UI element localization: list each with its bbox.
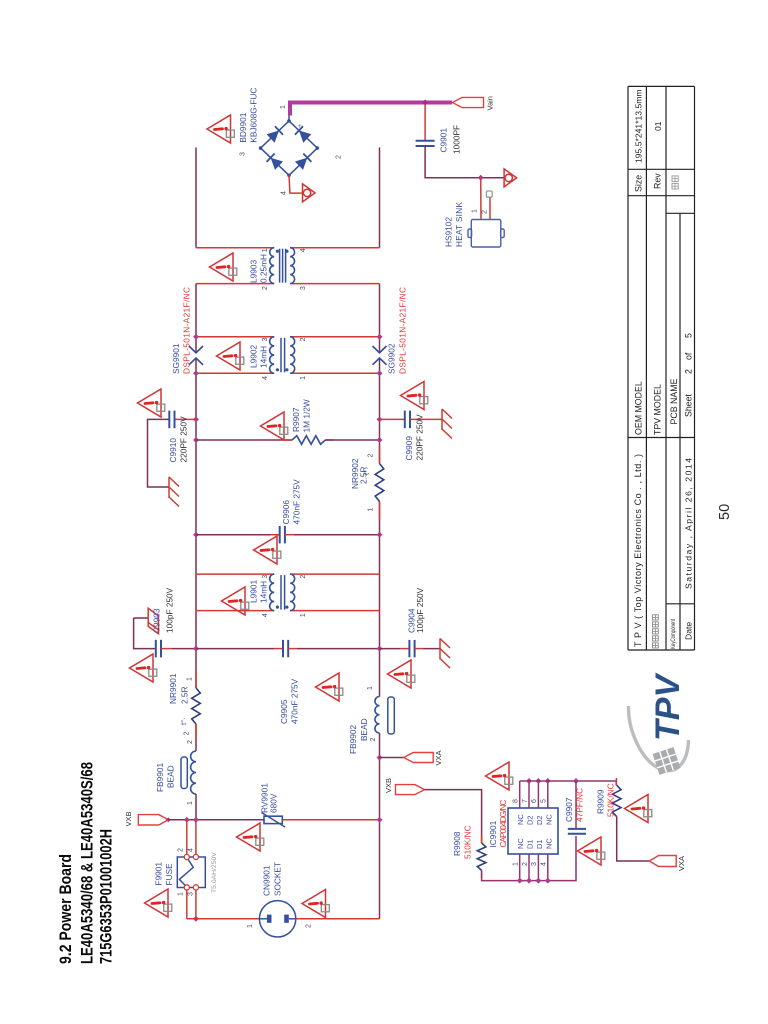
svg-text:IC9901: IC9901 [488,820,498,847]
connector VXB at IC9901 [396,785,425,795]
wire L9903 left tap to bottom rail [290,283,379,285]
ground chassis symbol at C9910 [169,477,179,507]
junction C9909 on bottom rail [377,416,383,422]
wire R9909 to VXA [617,817,650,861]
svg-text:2: 2 [306,924,313,928]
diode of BD9901 (AC3 to + upper-left) [267,154,283,170]
svg-text:1: 1 [280,105,287,109]
wire socket column upper [187,918,260,920]
wire L9903 right tap to top rail [196,247,274,249]
svg-text:195.5*241*13.5mm: 195.5*241*13.5mm [634,89,644,163]
svg-text:1: 1 [513,862,520,866]
warning triangle near F9901 [145,889,172,917]
svg-text:1: 1 [187,801,194,805]
warning triangle near C9906 [254,536,281,564]
svg-text:VXA: VXA [677,856,686,871]
wire R9907 lower lead [325,439,379,441]
svg-text:6: 6 [531,799,538,803]
title block outer and row lines [628,86,695,650]
warning triangle near R9909 [625,795,652,823]
svg-text:of: of [684,352,694,360]
svg-text:5: 5 [684,333,694,338]
diode of BD9901 (pin3 edge to + upper-right) [267,126,283,142]
wire L9902 right tap to bottom rail [290,336,379,338]
title block chinese row2 (structure dept) [653,615,659,648]
varistor RV9901 680V [262,813,286,828]
wire R9909 left red stub [616,817,618,825]
diode of BD9901 (lower-right to +) [295,126,312,142]
svg-text:4: 4 [281,191,288,195]
junction R9907 on bottom rail [377,437,383,443]
svg-text:3: 3 [240,152,247,156]
svg-text:Size: Size [634,175,644,192]
junction fuse pin2 tap [184,817,190,823]
wire L9902 left tap to top rail [196,372,274,374]
bridge rectifier BD9901 diamond [259,119,319,177]
svg-text:VXA: VXA [434,750,443,765]
wire bottom rail: NR9902 pin2 to SG9902 left electrode [379,358,381,464]
wire IC9901 pin 2 stub [528,854,530,881]
svg-text:2: 2 [522,862,529,866]
thermistor NR9901 2.5R [192,688,201,724]
wire fuse pin4 to VXB node [195,820,197,855]
wire socket column lower [295,918,379,920]
connector Vain [453,97,484,107]
wire IC9901 pin 1 stub [519,854,521,881]
wire fuse pin1 to socket column [186,890,188,919]
wire R9908 left red stub [481,870,483,878]
svg-text:2: 2 [178,848,185,852]
warning triangle above IC9901 [486,762,513,790]
wire C9903 loop to chassis [134,618,156,649]
resistor R9907 1M 1/2W [292,436,325,445]
wire heat sink pin2 [489,195,491,220]
svg-text:C9909: C9909 [404,436,414,461]
wire bridge pin4 to protective earth [289,175,302,193]
junction VXB tip [166,817,171,822]
thick Vain net wire (magenta) [290,103,452,116]
wire NR9902 right lead [379,446,381,464]
wire L9901 left tap to top rail [196,610,274,612]
wire R9909 right red stub [615,778,617,785]
warning triangle near R9907 [261,412,288,440]
wire L9901 left tap to bottom rail [290,610,379,612]
svg-text:Sheet: Sheet [684,393,694,417]
warning triangle near C9910 [138,389,165,417]
wire top rail: VXB node to FB9901 pin1 [195,794,197,820]
svg-text:KeyComponent: KeyComponent [670,619,677,649]
svg-text:Saturday , April 26, 2014: Saturday , April 26, 2014 [684,458,694,589]
svg-text:BEAD: BEAD [359,718,369,741]
ferrite bead FB9901 coil [191,751,196,794]
TPV logo panel grid [653,747,681,775]
warning triangle near C9909 [401,382,428,410]
warning triangle near C9903 [130,654,157,682]
ground chassis symbol at C9903 [148,608,158,634]
svg-text:Vain: Vain [486,96,495,110]
wire C9903 chassis stub [134,617,149,619]
svg-text:FUSE: FUSE [164,863,174,886]
wire L9902 right tap to top rail [196,336,274,338]
svg-text:1: 1 [178,892,185,896]
junction C9906 on top rail [193,532,199,538]
capacitor C9903 100pF 250V [156,640,196,658]
wire IC9901 pin 3 stub [537,854,539,881]
svg-text:C9910: C9910 [168,438,178,463]
svg-text:2.5R: 2.5R [180,686,190,704]
wire IC9901 pin 7 stub [528,781,530,808]
svg-text:470nF 275V: 470nF 275V [290,678,300,724]
svg-text:NC: NC [516,814,525,825]
svg-text:1: 1 [300,376,307,380]
svg-text:510K/NC: 510K/NC [606,783,616,817]
junction pin 2 on left bus [526,878,532,884]
svg-text:4: 4 [262,613,269,617]
svg-text:1: 1 [368,508,375,512]
wire C9901 to earth [425,146,503,178]
junction pin 5 on right bus [545,778,551,784]
svg-text:CAP004DG/NC: CAP004DG/NC [498,800,508,848]
capacitor C9906 470nF 275V [196,526,380,543]
svg-text:FB9902: FB9902 [348,725,358,754]
svg-text:HS9102: HS9102 [444,217,454,247]
svg-text:220PF 250V: 220PF 250V [415,414,425,461]
wire L9901 right tap to bottom rail [290,573,379,575]
inductor L9902 14mH common-mode choke [270,337,295,374]
svg-text:3: 3 [531,862,538,866]
svg-text:SG9901: SG9901 [171,343,181,374]
mounting pad symbol at HS9102 pin2 [486,191,492,197]
wire C9910 to chassis [148,419,170,487]
capacitor C9907 47PF/NC [568,781,586,834]
wire RV9901 to bottom rail [282,819,379,821]
wire right pin bus of IC9901 [520,781,617,785]
warning triangle near L9903 [210,253,237,281]
resistor R9908 510K/NC [477,843,486,870]
svg-text:Rev: Rev [653,173,663,189]
svg-text:1000PF: 1000PF [452,125,462,154]
capacitor C9904 100pF 250V [380,640,441,657]
svg-text:1: 1 [262,248,269,252]
capacitor C9909 220PF 250V [380,411,442,429]
wire C9901 branch from Vain bus [424,104,426,141]
svg-text:470nF 275V: 470nF 275V [292,479,302,525]
warning triangle near C9905 [316,673,343,701]
wire NR9902 left lead [379,502,381,521]
svg-text:8: 8 [513,799,520,803]
svg-text:C9903: C9903 [152,608,162,633]
svg-text:NC: NC [544,814,553,825]
title block chinese weight cell [672,176,678,189]
svg-text:0.25mH: 0.25mH [259,254,269,283]
warning triangle near C9904 [388,660,415,688]
warning triangle near L9901 [222,587,249,615]
svg-text:DSPL-501N-A21F/NC: DSPL-501N-A21F/NC [182,287,192,374]
ground chassis symbol at C9904 [440,639,450,669]
wire bottom rail: SG9902 right electrode to L9903 pin3 tap [379,284,381,353]
junction C9901 tap on Vain bus [422,100,428,106]
svg-text:680V: 680V [269,793,279,813]
wire bottom rail: FB9902 pin1 to NR9902 pin1 [379,502,381,697]
svg-text:D2: D2 [535,815,544,825]
junction VXA tap on bottom rail [377,755,383,761]
svg-text:2: 2 [482,210,489,214]
TPV logo swoosh [628,706,688,771]
wire bottom rail: L9903 pin4 tap to bridge pin2 column [379,147,381,247]
svg-text:R9908: R9908 [452,831,462,856]
junction pin 3 on left bus [535,878,541,884]
svg-text:C9906: C9906 [281,500,291,525]
svg-text:1: 1 [247,924,254,928]
svg-text:1M 1/2W: 1M 1/2W [302,399,312,432]
warning triangle near L9902 [217,342,244,370]
svg-text:1: 1 [300,613,307,617]
svg-text:F9901: F9901 [154,862,164,886]
svg-text:HEAT SINK: HEAT SINK [454,202,464,247]
warning triangle near BD9901 [207,115,234,143]
wire top rail: FB9901 pin2 to NR9901 pin2 [195,724,197,751]
junction L9902 pin1 tap on bottom rail [377,370,383,376]
svg-text:2: 2 [336,155,343,159]
warning triangle below C9907 [578,837,605,865]
svg-text:CN9901: CN9901 [262,865,272,896]
connector VXA at R9909 [649,856,676,867]
svg-text:TPV MODEL: TPV MODEL [653,384,663,435]
junction L9902 pin4 tap on top rail [193,370,199,376]
svg-text:510K/NC: 510K/NC [463,825,473,859]
wire L9901 right tap to top rail [196,573,274,575]
ground protective earth at C9901 [504,169,516,187]
junction C9907 tap on right bus [573,778,579,784]
wire R9907 lower red stub [325,439,333,441]
junction L9902 pin3 tap on top rail [193,334,199,340]
inductor L9901 14mH common-mode choke [270,574,295,611]
wire top rail: L9903 pin1 tap to bridge pin3 column [195,147,197,247]
svg-text:47PF/NC: 47PF/NC [575,788,585,822]
svg-text:14mH: 14mH [259,581,269,603]
svg-text:R9907: R9907 [291,407,301,432]
svg-text:100pF 250V: 100pF 250V [415,587,425,633]
junction fuse pin4 tap [193,817,199,823]
svg-text:D1: D1 [535,839,544,849]
svg-text:2: 2 [684,369,694,374]
svg-text:KBJ608G-FUC: KBJ608G-FUC [249,88,259,143]
ground protective earth at BD9901 pin4 [303,184,316,202]
svg-text:+: + [295,123,304,128]
junction C9910 on top rail [193,416,199,422]
svg-text:L9903: L9903 [249,260,259,283]
svg-text:NC: NC [516,838,525,849]
wire NR9901 right lead [195,670,197,688]
wire bottom rail: socket corner to FB9902 pin2 [379,733,381,919]
junction R9907 on top rail [193,437,199,443]
wire left pin bus of IC9901 [482,836,576,881]
wire fuse pin2 to VXB node [186,820,188,855]
capacitor C9910 220PF 250V [169,411,196,429]
svg-text:2: 2 [184,732,191,736]
svg-text:4: 4 [262,376,269,380]
svg-text:SOCKET: SOCKET [273,862,283,896]
svg-text:14mH: 14mH [259,346,269,368]
svg-text:100pF 250V: 100pF 250V [165,587,175,633]
svg-text:BD9901: BD9901 [238,112,248,142]
svg-text:NC: NC [544,838,553,849]
wire IC9901 pin 5 stub [547,781,549,808]
wire NR9901 left lead [195,724,197,742]
junction socket column at fuse pin3 [193,916,199,922]
svg-text:2: 2 [187,740,194,744]
ferrite bead FB9901 body [181,757,187,789]
svg-text:2: 2 [262,286,269,290]
junction C9906 on bottom rail [377,532,383,538]
surge arrester SG9901 electrodes [189,346,203,365]
inductor L9903 0.25mH common-mode choke [270,248,295,284]
svg-text:5: 5 [541,799,548,803]
wire VXB to R9908 [425,790,482,843]
wire bridge pin1 stub to Vain bus [288,114,290,121]
wire IC9901 pin 4 stub [547,854,549,881]
junction RV9901 column on bottom rail [377,817,383,823]
svg-text:R9909: R9909 [596,789,606,814]
warning triangle near CN9901 [302,890,329,918]
svg-text:2: 2 [300,337,307,341]
svg-text:D1: D1 [526,839,535,849]
wire R9907 upper lead [196,439,292,441]
junction C9905/C9904 on bottom rail [377,646,383,652]
svg-text:3: 3 [262,337,269,341]
svg-text:715G6353P01001002H: 715G6353P01001002H [97,829,116,964]
wire fuse pin3 to socket column [195,890,197,919]
junction pin 6 on right bus [535,778,541,784]
warning triangle near RV9901 [237,823,264,851]
wire L9902 left tap to bottom rail [290,372,379,374]
svg-text:220PF 250V: 220PF 250V [179,416,189,463]
svg-text:t°·: t°· [179,717,188,725]
wire top rail: NR9901 pin1 to SG9901 left electrode [195,358,197,688]
diode of BD9901 (minus to AC lower-left) [295,154,312,170]
svg-text:3: 3 [188,892,195,896]
svg-text:C9901: C9901 [439,128,449,153]
svg-text:L9902: L9902 [249,345,259,368]
svg-text:L9901: L9901 [249,580,259,603]
wire L9903 right tap to bottom rail [290,247,379,249]
ground chassis symbol at C9909 [442,409,452,439]
svg-text:SG9902: SG9902 [387,343,397,374]
svg-text:BEAD: BEAD [166,765,176,788]
wire VXB column upper [168,819,264,821]
junction C9903/C9905 on top rail [193,646,199,652]
junction pin 1 on left bus [517,878,523,884]
svg-text:T P V ( Top Victory Electronic: T P V ( Top Victory Electronics Co . , L… [633,454,643,647]
svg-text:NR9901: NR9901 [168,673,178,704]
svg-text:3: 3 [300,286,307,290]
svg-text:DSPL-501N-A21F/NC: DSPL-501N-A21F/NC [398,287,408,374]
wire top rail: SG9901 right electrode to L9903 pin2 tap [195,284,197,353]
svg-text:7: 7 [522,799,529,803]
connector VXB at fuse [138,815,168,825]
surge arrester SG9902 electrodes [373,346,387,365]
ferrite bead FB9902 body [388,697,395,734]
svg-text:50: 50 [717,504,733,520]
svg-text:t°·: t°· [362,467,371,475]
svg-text:Date: Date [684,622,694,640]
svg-text:LE40A5340/68 & LE40A5340S/68: LE40A5340/68 & LE40A5340S/68 [78,762,97,964]
ferrite bead FB9902 coil [375,697,380,734]
svg-text:4: 4 [188,848,195,852]
svg-text:T5.0AH/250V: T5.0AH/250V [211,852,218,893]
svg-text:2: 2 [368,454,375,458]
svg-text:4: 4 [300,248,307,252]
svg-text:4: 4 [541,862,548,866]
svg-text:2: 2 [300,575,307,579]
heat sink HS9102 body [468,220,504,248]
wire IC9901 pin 8 stub [519,781,521,808]
svg-text:C9905: C9905 [279,699,289,724]
junction pin 7 on right bus [526,778,532,784]
junction heat sink tap [478,175,484,181]
svg-text:VXB: VXB [124,811,133,826]
junction pin 4 on left bus [545,878,551,884]
svg-text:PCB NAME: PCB NAME [669,378,679,424]
svg-text:01: 01 [653,121,663,131]
svg-text:1: 1 [367,686,374,690]
svg-text:1: 1 [472,209,479,213]
AC inlet CN9901 SOCKET [259,901,295,937]
svg-text:C9907: C9907 [564,797,574,822]
svg-text:FB9901: FB9901 [155,763,165,792]
wire R9907 upper red stub [285,439,293,441]
svg-text:1: 1 [187,677,194,681]
svg-text:OEM MODEL: OEM MODEL [634,381,644,435]
svg-text:D2: D2 [526,815,535,825]
wire heat sink pin1 [480,178,482,219]
fuse F9901 body [177,854,205,890]
resistor R9909 510K/NC [612,785,621,816]
svg-text:3: 3 [262,575,269,579]
connector VXA at bottom rail [404,753,434,763]
wire VXA stub [380,757,405,759]
thermistor NR9902 2.5R [375,464,384,502]
wire IC9901 pin 6 stub [537,781,539,808]
junction L9902 pin2 tap on bottom rail [377,334,383,340]
svg-text:TPV: TPV [649,672,687,741]
capacitor C9905 470nF 275V [196,640,380,657]
capacitor C9901 1000PF [416,141,435,146]
wire R9908 right red stub [481,835,483,843]
wire L9903 left tap to top rail [196,283,274,285]
svg-text:2: 2 [370,738,377,742]
IC IC9901 CAP004DG/NC body [508,808,558,854]
svg-text:VXB: VXB [384,778,393,793]
svg-text:9.2 Power Board: 9.2 Power Board [56,854,75,964]
